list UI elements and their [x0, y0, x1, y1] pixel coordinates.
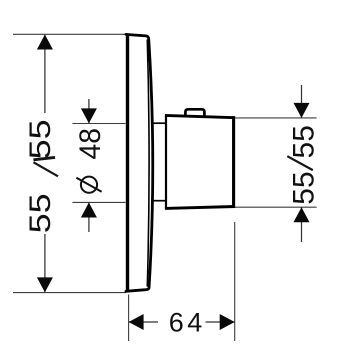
svg-text:55: 55: [24, 119, 57, 159]
svg-text:48: 48: [74, 128, 107, 160]
svg-text:55: 55: [287, 125, 320, 158]
svg-text:64: 64: [169, 308, 206, 338]
svg-text:55: 55: [24, 193, 57, 233]
svg-text:55: 55: [287, 171, 320, 204]
